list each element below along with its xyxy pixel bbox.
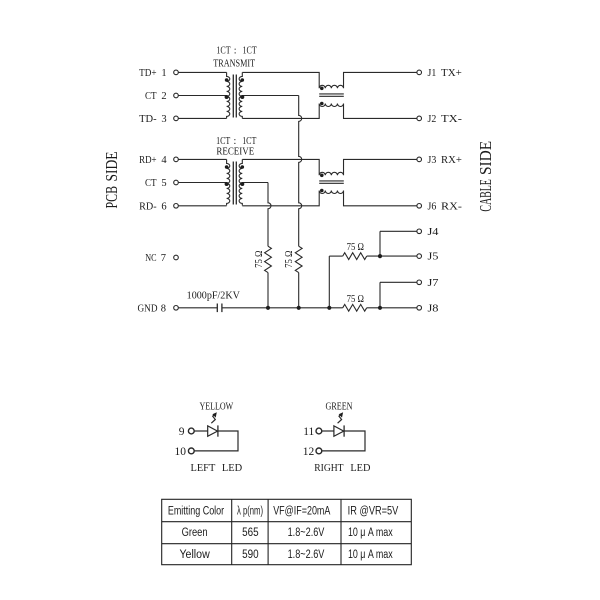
- svg-text:2: 2: [161, 91, 166, 102]
- svg-text:NC: NC: [145, 253, 156, 264]
- svg-text:Yellow: Yellow: [179, 549, 210, 561]
- svg-text:λ p(nm): λ p(nm): [237, 506, 263, 518]
- svg-text:SIDE: SIDE: [476, 141, 495, 175]
- svg-text:J7: J7: [428, 278, 439, 289]
- svg-text:IR @VR=5V: IR @VR=5V: [348, 506, 399, 518]
- svg-text:CT: CT: [145, 91, 157, 102]
- svg-text:TX-: TX-: [441, 114, 462, 125]
- svg-text:75 Ω: 75 Ω: [347, 294, 364, 305]
- svg-text:1.8~2.6V: 1.8~2.6V: [288, 527, 325, 539]
- svg-text:565: 565: [242, 527, 259, 539]
- svg-text:VF@IF=20mA: VF@IF=20mA: [273, 506, 330, 518]
- svg-text:10 μ A max: 10 μ A max: [348, 549, 393, 561]
- svg-text:75 Ω: 75 Ω: [284, 251, 295, 268]
- svg-text:1.8~2.6V: 1.8~2.6V: [288, 549, 325, 561]
- svg-text:RX-: RX-: [441, 201, 462, 212]
- svg-text:RD-: RD-: [139, 201, 157, 212]
- svg-text:4: 4: [161, 155, 167, 166]
- svg-text:Emitting Color: Emitting Color: [168, 506, 224, 518]
- svg-text:12: 12: [303, 446, 315, 458]
- svg-text:6: 6: [161, 201, 166, 212]
- svg-text:5: 5: [161, 178, 166, 189]
- svg-text:11: 11: [303, 426, 314, 438]
- svg-text:J5: J5: [428, 252, 439, 263]
- svg-text:TD+: TD+: [139, 68, 157, 79]
- svg-text:10: 10: [175, 446, 187, 458]
- svg-text:J1: J1: [428, 68, 437, 79]
- svg-text:RX+: RX+: [441, 155, 462, 166]
- svg-text:LED: LED: [222, 463, 242, 474]
- svg-text:CT: CT: [145, 178, 157, 189]
- svg-text:RIGHT: RIGHT: [314, 463, 343, 474]
- svg-text:7: 7: [161, 253, 166, 264]
- svg-text:TX+: TX+: [441, 68, 462, 79]
- svg-text:RD+: RD+: [139, 155, 157, 166]
- svg-text:YELLOW: YELLOW: [199, 401, 233, 412]
- svg-text:J4: J4: [428, 227, 440, 238]
- svg-text:PCB: PCB: [102, 186, 121, 209]
- svg-text:GREEN: GREEN: [326, 401, 353, 412]
- svg-text:75 Ω: 75 Ω: [254, 251, 265, 268]
- svg-text:590: 590: [242, 549, 259, 561]
- svg-text:3: 3: [161, 114, 166, 125]
- svg-text:TD-: TD-: [139, 114, 157, 125]
- svg-text:Green: Green: [182, 527, 208, 539]
- svg-text:GND: GND: [138, 303, 158, 314]
- svg-text:J8: J8: [428, 303, 439, 314]
- svg-text:1CT: 1CT: [243, 45, 257, 56]
- svg-text:9: 9: [179, 426, 185, 438]
- svg-text:1CT: 1CT: [216, 45, 230, 56]
- svg-text:1000pF/2KV: 1000pF/2KV: [187, 290, 241, 301]
- svg-text:8: 8: [161, 303, 166, 314]
- svg-text:1: 1: [161, 68, 166, 79]
- svg-text:J2: J2: [428, 114, 437, 125]
- svg-text:RECEIVE: RECEIVE: [216, 146, 254, 157]
- svg-text:10 μ A max: 10 μ A max: [348, 527, 393, 539]
- svg-text:CABLE: CABLE: [476, 179, 495, 212]
- svg-text:J6: J6: [428, 201, 437, 212]
- svg-text:LEFT: LEFT: [191, 463, 216, 474]
- svg-text:J3: J3: [428, 155, 437, 166]
- svg-text:SIDE: SIDE: [102, 152, 121, 182]
- svg-text:75 Ω: 75 Ω: [347, 242, 364, 253]
- svg-text::: :: [234, 45, 237, 56]
- svg-text:LED: LED: [350, 463, 370, 474]
- svg-text:TRANSMIT: TRANSMIT: [213, 59, 255, 70]
